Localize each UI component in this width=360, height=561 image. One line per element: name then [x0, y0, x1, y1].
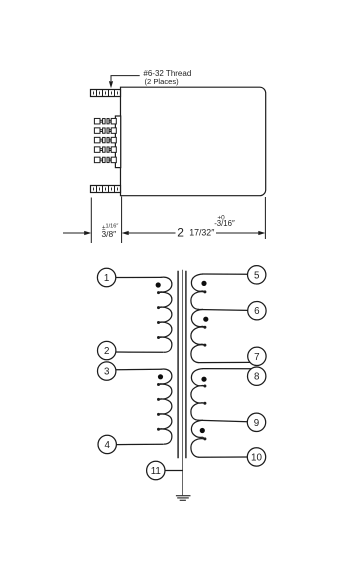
wire winding S2 to pin 10	[199, 456, 248, 458]
svg-text:7: 7	[254, 352, 259, 363]
svg-text:(2 Places): (2 Places)	[145, 77, 180, 86]
pin 2 terminal	[98, 341, 116, 359]
electrostatic shield line (to pin 11 / ground)	[182, 270, 184, 496]
pin 10 terminal	[247, 448, 265, 466]
threaded stud top (#6-32)	[91, 90, 121, 97]
pin 8 terminal	[248, 367, 266, 385]
pin 7 terminal	[248, 347, 266, 365]
wire pin 5 to winding S1	[203, 273, 248, 275]
winding cusp hairpin blobs	[157, 290, 206, 440]
svg-text:9: 9	[254, 418, 259, 429]
wire pin 8 to winding S2	[203, 368, 253, 370]
winding S2 lower section (pins 9-10)	[191, 420, 204, 457]
pin 1 terminal	[97, 268, 115, 286]
solder lug pin row 3	[94, 137, 116, 143]
threaded stud bottom (#6-32)	[91, 186, 121, 193]
svg-text:6: 6	[254, 306, 260, 317]
pin 6 terminal	[248, 302, 266, 320]
transformer body	[121, 87, 266, 196]
winding P2 (pins 3-4)	[160, 369, 172, 444]
extension line at body left edge	[121, 197, 123, 244]
svg-text:-3/16″: -3/16″	[214, 219, 235, 228]
svg-text:2: 2	[104, 346, 109, 357]
svg-text:8: 8	[254, 372, 260, 383]
wire pin 3 to winding P2	[116, 368, 162, 370]
dimension line 2 17/32 with arrows	[122, 231, 266, 235]
polarity dot winding S1 top	[201, 281, 206, 286]
wire winding S1 to pin 7	[199, 361, 251, 363]
dimension arrow left (3/8)	[63, 231, 91, 235]
polarity dot winding S1 mid	[203, 317, 208, 322]
wire pin 11 to shield	[165, 470, 183, 472]
tap wire to pin 6	[199, 309, 248, 312]
solder lug pin row 5	[94, 157, 116, 163]
pin 5 terminal	[248, 266, 266, 284]
winding S1 upper section (pins 5-6)	[191, 274, 204, 309]
polarity dot winding P1	[156, 282, 161, 287]
svg-text:10: 10	[251, 452, 262, 463]
svg-text:17/32″: 17/32″	[189, 228, 214, 238]
wire winding P1 to pin 2	[115, 351, 163, 353]
polarity dot winding S2 top	[201, 377, 206, 382]
svg-text:4: 4	[104, 440, 110, 451]
mounting bracket	[115, 116, 120, 168]
pin 4 terminal	[98, 435, 116, 453]
ground symbol	[176, 496, 191, 501]
winding P1 (pins 1-2)	[160, 277, 172, 352]
polarity dot winding P2	[158, 374, 163, 379]
wire pin 1 to winding P1	[116, 276, 162, 278]
extension line at body right edge	[264, 197, 266, 239]
pin 9 terminal	[247, 413, 265, 431]
solder lug pin row 4	[94, 147, 116, 153]
leader arrow to threaded stud	[109, 76, 140, 89]
svg-text:11: 11	[151, 466, 161, 477]
svg-text:5: 5	[254, 270, 260, 281]
core lamination line left	[177, 271, 179, 459]
svg-text:3: 3	[104, 367, 110, 378]
core lamination line right	[185, 271, 187, 459]
svg-text:3/8″: 3/8″	[102, 229, 117, 239]
svg-text:2: 2	[177, 226, 184, 240]
polarity dot winding S2 mid	[200, 428, 205, 433]
solder lug pin row 2	[94, 128, 116, 134]
wire winding P2 to pin 4	[116, 443, 163, 445]
tap wire to pin 9	[199, 420, 248, 421]
solder lug pin row 1	[94, 118, 116, 124]
svg-text:1: 1	[104, 273, 109, 284]
pin 11 terminal	[147, 461, 165, 479]
extension line at stud tip	[90, 198, 92, 244]
winding S1 lower section (pins 6-7)	[191, 309, 204, 362]
pin 3 terminal	[98, 362, 116, 380]
winding S2 upper section (pins 8-9)	[191, 369, 204, 421]
